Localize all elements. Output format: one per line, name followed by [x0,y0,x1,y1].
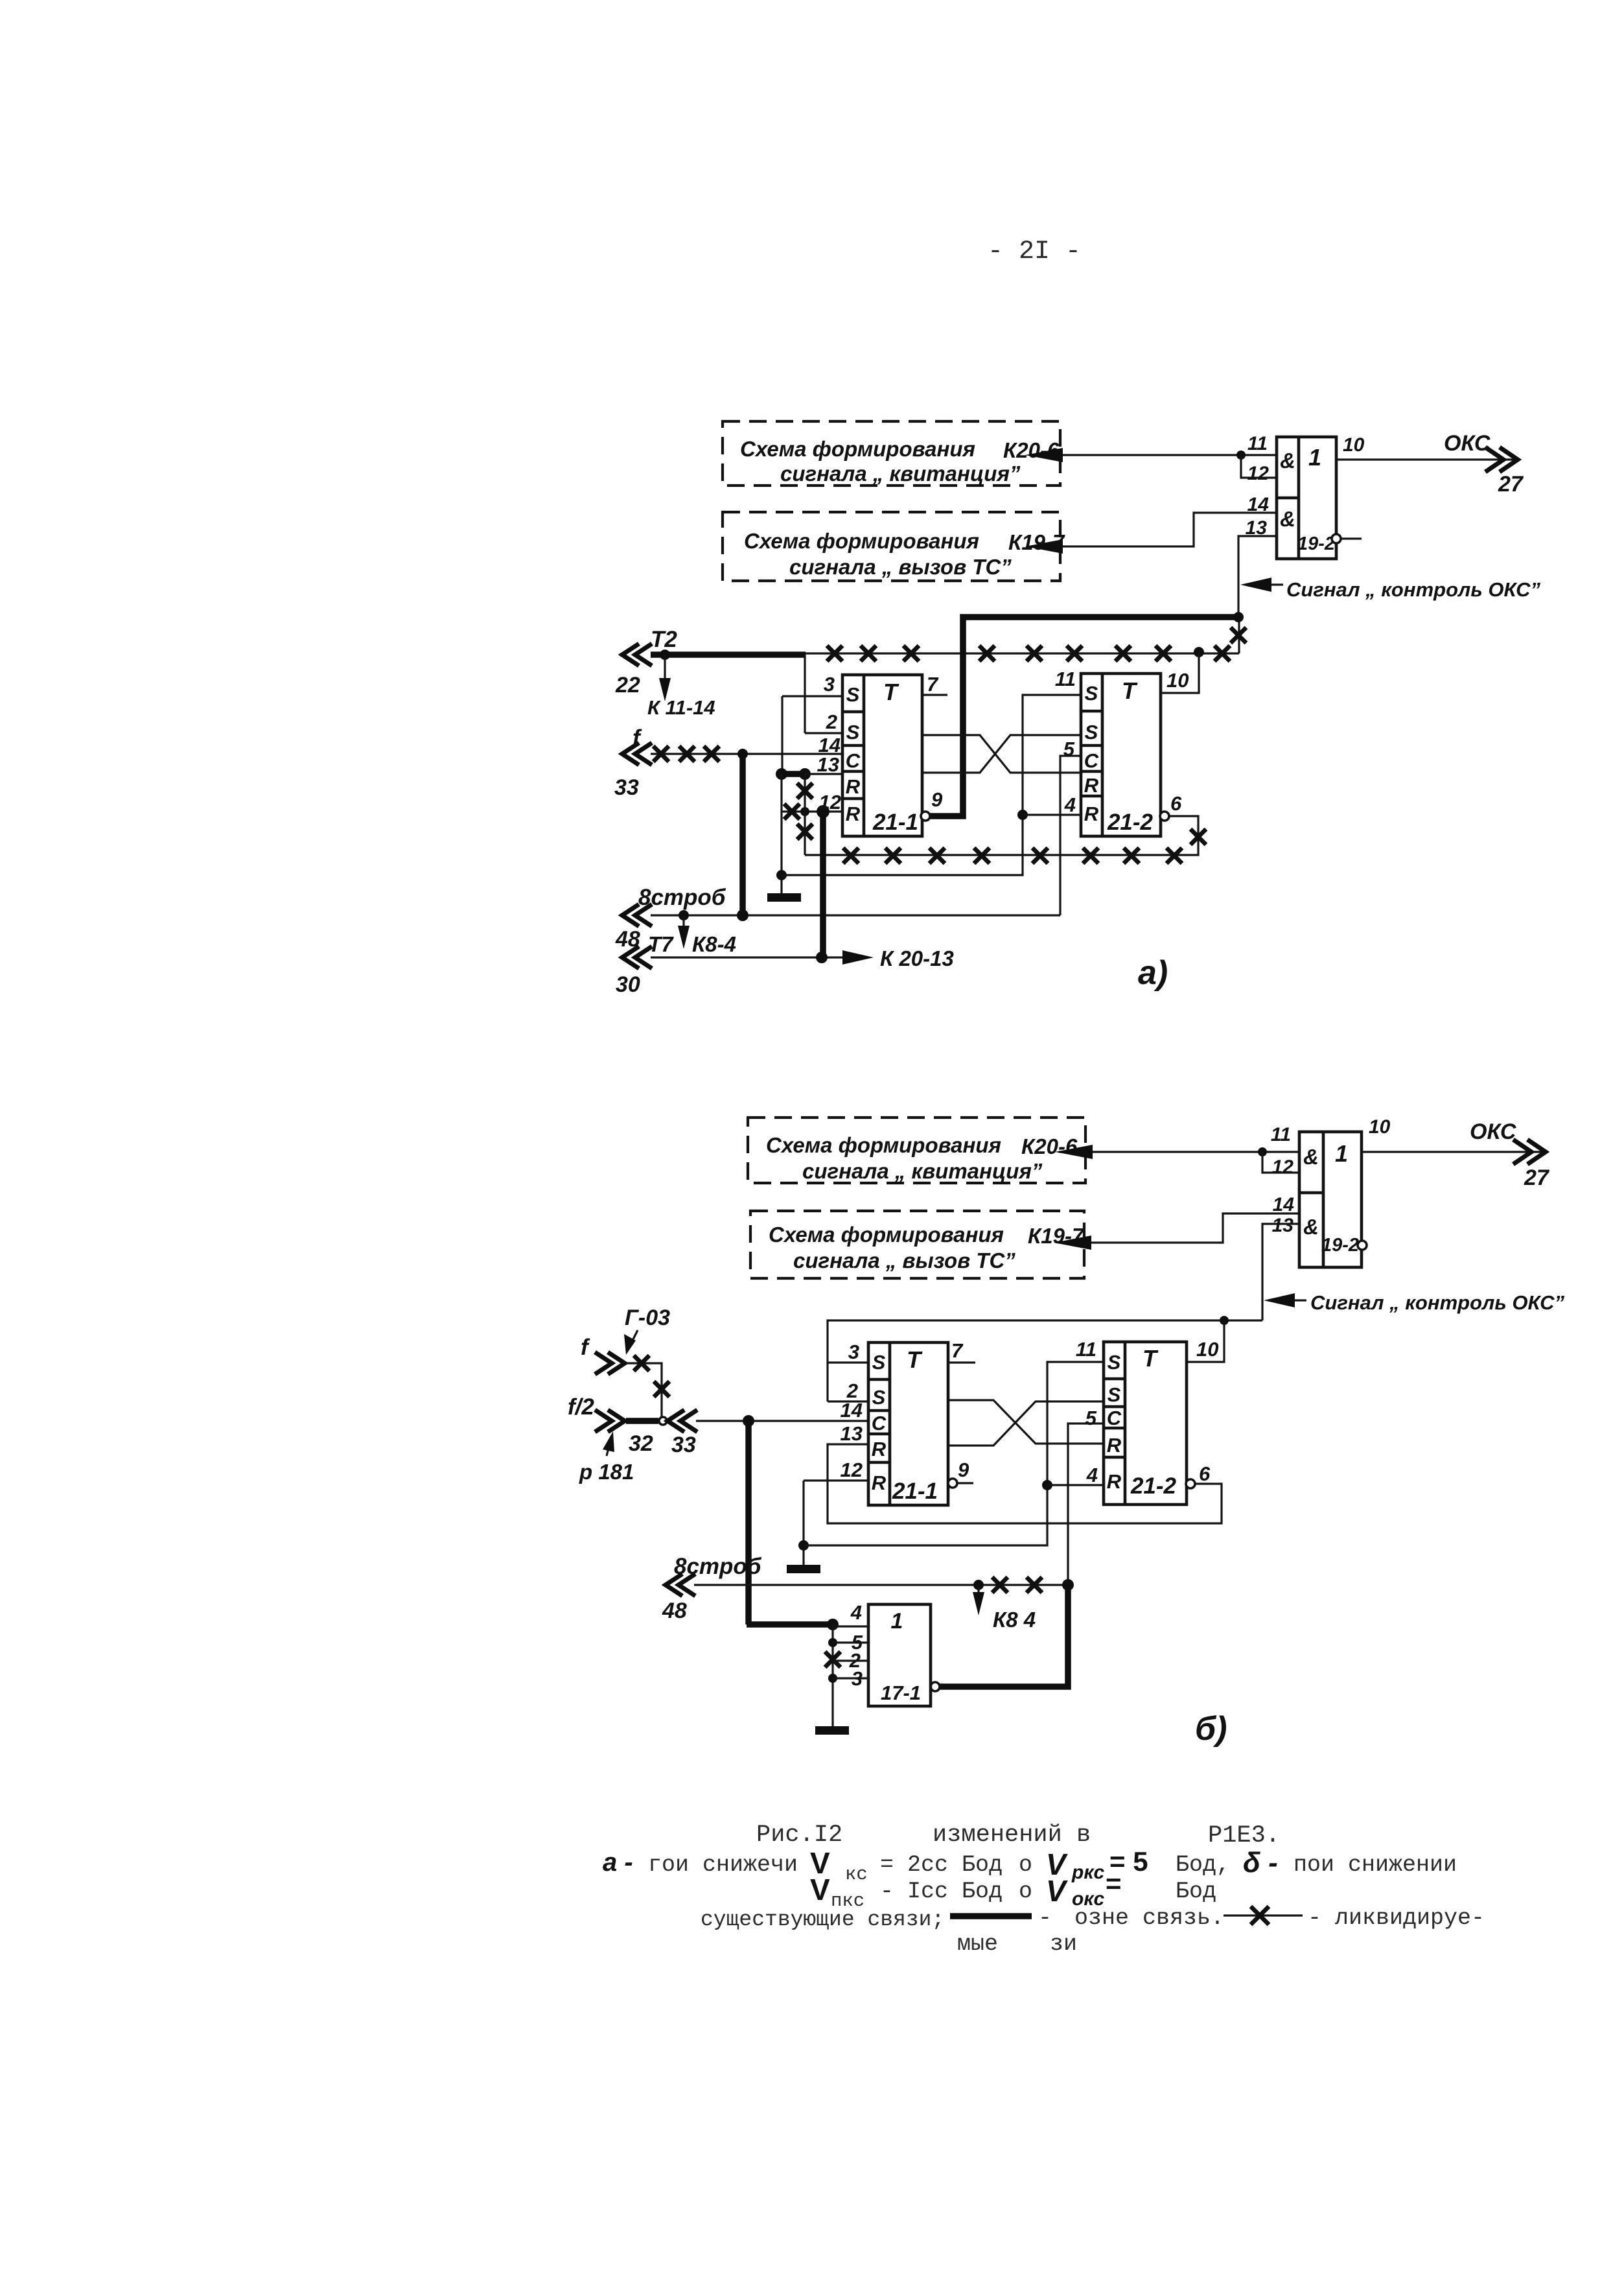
svg-text:=: = [1106,1868,1122,1899]
wire thick new: строб to 17-1 output (b) [940,1585,1068,1687]
node 30-line / thick vertical [816,952,828,963]
connector строб chevron 48 (b) [662,1554,762,1623]
wire К20-6 to gate pin 11 [1025,448,1277,462]
svg-text:Схема формирования: Схема формирования [740,437,975,461]
svg-text:S: S [872,1386,886,1409]
wire T7 line to К 20-13 [651,946,954,970]
svg-text:ОКС: ОКС [1470,1119,1516,1144]
svg-text:а): а) [1138,954,1168,992]
node R1 right [799,768,811,780]
svg-text:14: 14 [1247,494,1270,515]
dashed box: Схема формирования сигнала квитанция (b) [748,1118,1085,1183]
svg-text:30: 30 [616,972,640,997]
node R1 left [776,768,787,780]
svg-text:гои снижечи: гои снижечи [648,1852,798,1878]
svg-text:21-1: 21-1 [892,1479,938,1504]
label Г-03 with arrow [624,1306,670,1355]
wire old line T2 to gate (liquidated, X marks) [806,617,1246,661]
svg-text:S: S [1108,1383,1121,1406]
svg-text:21-2: 21-2 [1130,1473,1177,1499]
wire pin 7 stub (b) [948,1339,975,1363]
svg-text:сигнала „ вызов ТС”: сигнала „ вызов ТС” [789,555,1012,579]
svg-text:зи: зи [1050,1931,1077,1957]
wire feedback to FF2 pins 11/4 [782,695,1081,875]
svg-text:12: 12 [841,1459,863,1481]
node pin 4 branch [1017,810,1028,820]
label р 181 with arrow [579,1431,634,1484]
svg-text:ОКС: ОКС [1444,431,1491,456]
logic gate U17-1 [849,1601,931,1706]
svg-text:V: V [810,1873,830,1906]
svg-text:12: 12 [1247,463,1270,484]
svg-text:изменений в: изменений в [933,1822,1091,1849]
wire T2 thick new segment [651,651,806,658]
svg-text:33: 33 [614,775,639,800]
node строб / thick f rail [737,909,748,921]
svg-text:19-2: 19-2 [1297,533,1335,554]
svg-text:Схема формирования: Схема формирования [766,1133,1001,1157]
svg-text:Сигнал „ контроль ОКС”: Сигнал „ контроль ОКС” [1310,1291,1564,1314]
svg-text:Рис.I2: Рис.I2 [756,1822,842,1849]
wire К20-6 to gate pin 11 (b) [1055,1145,1299,1159]
node pin11/12 junction [1236,451,1246,460]
svg-text:4: 4 [850,1601,862,1624]
legend X line: liquidated connections [1224,1906,1303,1925]
wire return line to FF2 pins 11/4 (b) [804,1362,1104,1545]
wire ОКС output (a) [1336,431,1524,497]
node строб / C jog / thick drop (b) [1062,1579,1074,1591]
svg-text:озне связь.: озне связь. [1074,1905,1224,1931]
pin 9 inverted output circle (b) [948,1459,973,1488]
svg-text:48: 48 [662,1599,687,1623]
node pin 5 tap [828,1638,837,1647]
svg-text:C: C [1084,749,1099,772]
wire pin 3 stub (b) [828,1361,868,1363]
svg-text:а -: а - [603,1848,633,1877]
svg-text:3: 3 [824,673,835,696]
svg-text:S: S [872,1351,886,1374]
svg-text:&: & [1303,1145,1319,1169]
svg-text:12: 12 [1272,1156,1294,1178]
wire f input line to pin 14 (X marks) [651,746,842,762]
svg-text:11: 11 [1076,1338,1096,1361]
svg-text:10: 10 [1369,1116,1391,1138]
svg-text:2: 2 [826,710,837,733]
svg-text:Г-03: Г-03 [625,1306,670,1330]
wire pin 2 stub (b) [828,1400,868,1402]
svg-text:Т: Т [907,1346,923,1373]
svg-text:10: 10 [1196,1338,1218,1361]
node pin 3 tap [828,1674,837,1683]
svg-text:10: 10 [1166,669,1189,692]
svg-text:ркс: ркс [1071,1862,1105,1883]
wire pin 13 riser (b) [1262,1224,1299,1320]
wire контроль ОКС line to pins 3/2 [828,1320,1262,1401]
svg-text:27: 27 [1524,1166,1550,1190]
flip-flop U21-2 (b) [1076,1338,1187,1505]
svg-text:22: 22 [615,673,640,697]
svg-text:&: & [1280,449,1295,473]
wire Сигнал контроль ОКС arrow [1240,578,1540,601]
svg-text:Схема формирования: Схема формирования [769,1223,1004,1247]
op gate U19-2 (a) [1246,433,1336,559]
svg-text:7: 7 [927,673,939,696]
svg-text:R: R [846,803,861,825]
node ground rail / return line (b) [798,1540,809,1551]
node pin 12 / new thick vertical [817,805,829,818]
svg-text:11: 11 [1271,1124,1291,1145]
svg-text:существующие связи;: существующие связи; [701,1908,944,1932]
svg-text:R: R [1107,1434,1122,1457]
svg-text:Т: Т [1122,677,1138,704]
svg-text:5: 5 [1063,738,1075,760]
node pin 4 branch (b) [1042,1480,1052,1490]
connector Т2 chevron 22 [615,627,677,697]
connector f chevron 33 [614,725,652,800]
wire 17-1 input rail [825,1624,841,1726]
svg-text:13: 13 [817,753,839,776]
svg-text:Т: Т [883,679,899,705]
wire pin 10 riser (b) [1187,1320,1224,1362]
svg-text:о: о [1019,1879,1032,1904]
dashed box: Схема формирования сигнала вызов ТС (b) [750,1211,1085,1278]
svg-text:13: 13 [1246,517,1268,539]
wire thick new connection pin9 to pin13 riser [929,617,1238,816]
wire thick new: pin12 to T7 line [820,812,826,957]
node 17-1 input rail top [827,1619,839,1630]
svg-text:1: 1 [891,1609,903,1634]
svg-text:Сигнал „ контроль ОКС”: Сигнал „ контроль ОКС” [1286,578,1540,601]
gate 19-2 inverted output circle (b) [1358,1241,1367,1250]
legend thick line: new connections [950,1913,1032,1919]
node pin10 riser (b) [1220,1316,1229,1325]
connector 33 chevron out (b) [667,1410,697,1457]
wire crossover lower-to-upper (b) [948,1401,1104,1446]
wire crossover upper-to-lower [922,735,1081,773]
svg-text:R: R [872,1471,887,1494]
svg-text:33: 33 [671,1433,696,1457]
wire pin 13 riser [1238,536,1277,617]
node f / strobe tie [737,749,748,759]
svg-text:f/2: f/2 [568,1394,594,1420]
wire строб line [651,914,1060,916]
svg-text:Т2: Т2 [651,627,677,652]
dashed box: Схема формирования сигнала квитанция (a) [723,421,1060,486]
svg-text:12: 12 [819,791,841,814]
wire thick new rail f/2 to 17-1 (b) [747,1421,833,1624]
svg-text:32: 32 [629,1431,653,1456]
svg-text:6: 6 [1199,1462,1211,1485]
wire ОКС output (b) [1362,1116,1550,1190]
svg-text:21-1: 21-1 [872,810,918,835]
svg-text:19-2: 19-2 [1321,1235,1359,1256]
svg-text:сигнала „ квитанция”: сигнала „ квитанция” [802,1159,1043,1183]
svg-text:= 2сс Бод: = 2сс Бод [880,1852,1003,1878]
svg-text:пои снижении: пои снижении [1293,1852,1457,1878]
svg-text:р 181: р 181 [579,1460,634,1484]
wire pin 4 row (b) [1047,1484,1104,1486]
wire pin 12 jog (b) [1262,1152,1299,1173]
node строб / К8-4 tap [679,910,689,920]
svg-text:- ликвидируе-: - ликвидируе- [1308,1905,1485,1931]
op gate U19-2 (b) [1271,1124,1362,1267]
svg-text:S: S [1085,682,1098,705]
node T2 / К11-14 tap [660,650,670,660]
svg-text:Бод: Бод [1176,1879,1216,1904]
dashed box: Схема формирования сигнала вызов ТС (a) [723,512,1065,581]
svg-text:-: - [1038,1905,1052,1931]
svg-text:&: & [1303,1215,1319,1239]
svg-text:S: S [1108,1351,1121,1374]
node thick line / pin13 riser [1233,612,1244,622]
wire C input jog from strobe (b) [1068,1424,1104,1585]
wire К19-7 to gate pin 14 (b) [1054,1213,1299,1250]
wire pin 12 row (b) [804,1479,868,1481]
svg-text:4: 4 [1064,793,1076,816]
wire f to f/2 junction with X marks [626,1355,669,1421]
svg-text:6: 6 [1170,792,1182,815]
svg-text:V: V [1046,1874,1068,1908]
wire Сигнал контроль ОКС arrow (b) [1264,1291,1564,1314]
ground symbol (a) [767,893,801,902]
wire pin 2 [805,732,842,734]
wire C input jog from strobe [1060,756,1081,915]
pin 9 inverted output circle [921,788,943,821]
wire thick new segment pin 13 row [782,771,805,777]
wire crossover upper-to-lower (b) [948,1400,1104,1444]
svg-text:27: 27 [1498,472,1524,497]
node pin11/12 junction (b) [1258,1147,1267,1156]
svg-text:кс: кс [845,1864,868,1885]
svg-text:C: C [846,749,861,772]
connector строб chevron 48 [615,885,726,952]
connector f chevron (b) [581,1335,625,1374]
wire f/2 thick stub [626,1418,658,1424]
wire К19-7 to gate pin 14 [1025,513,1277,554]
svg-text:14: 14 [841,1399,863,1422]
svg-text:R: R [846,775,861,798]
svg-text:13: 13 [1272,1215,1294,1236]
wire left rail to R inputs [781,696,783,774]
svg-text:Т: Т [1143,1345,1159,1372]
pin 6 inverted output circle [1160,792,1182,821]
svg-text:К8-4: К8-4 [692,932,736,956]
svg-text:Бод,: Бод, [1176,1852,1230,1878]
svg-text:- Iсс Бод: - Iсс Бод [880,1879,1003,1904]
svg-text:14: 14 [1273,1194,1295,1215]
svg-text:4: 4 [1086,1464,1098,1486]
svg-text:К8 4: К8 4 [993,1608,1036,1632]
ground symbol upper (b) [787,1565,820,1573]
node f/2 / thick rail (b) [743,1415,754,1427]
svg-text:δ -: δ - [1243,1847,1278,1879]
node pin 12 / old vertical [800,807,809,816]
gate 19-2 inverted output circle [1332,534,1362,543]
node feedback tap [776,870,787,880]
wire pin 7 stub [922,673,947,696]
svg-text:10: 10 [1343,434,1365,456]
svg-text:5: 5 [1085,1407,1097,1429]
node строб / К8 4 tap (b) [973,1580,984,1590]
svg-text:9: 9 [958,1459,969,1481]
wire old vertical with X marks [797,774,813,855]
wire К 11-14 down arrow [647,655,715,719]
flip-flop U21-2 (a) [1055,668,1161,836]
node old line / pin10 riser [1194,647,1204,657]
wire К8 4 down arrow (b) [973,1585,1036,1632]
svg-text:7: 7 [951,1339,964,1362]
svg-text:9: 9 [931,788,943,811]
svg-text:сигнала „ квитанция”: сигнала „ квитанция” [780,462,1021,486]
wire pin 13 stub [805,773,842,775]
svg-text:Т7: Т7 [648,932,674,956]
svg-text:C: C [872,1412,887,1435]
gate U17-1 output circle [931,1682,940,1691]
svg-text:Р1Е3.: Р1Е3. [1208,1822,1280,1849]
svg-text:1: 1 [1308,444,1321,471]
svg-text:17-1: 17-1 [881,1682,921,1704]
svg-text:21-2: 21-2 [1107,810,1154,835]
wire строб line (b) [694,1577,1068,1593]
wire crossover lower-to-upper [922,735,1081,773]
svg-text:13: 13 [841,1422,863,1445]
wire f/2 line to pin 14 (b) [696,1420,868,1422]
wire thick new: f line to strobe line [739,754,746,916]
connector 30 chevron [616,946,652,997]
wire pin 12 jog [1241,455,1277,478]
svg-text:К 11-14: К 11-14 [647,696,715,719]
svg-text:8строб: 8строб [674,1554,762,1579]
svg-text:C: C [1107,1407,1122,1429]
svg-text:мые: мые [957,1931,998,1957]
node f junction circle [659,1417,667,1425]
svg-text:Схема формирования: Схема формирования [744,529,979,553]
svg-text:R: R [1084,774,1099,797]
svg-text:11: 11 [1247,433,1268,454]
wire ground rail (b) [802,1481,804,1565]
svg-text:о: о [1019,1852,1032,1878]
pin 6 inverted output circle (b) [1186,1462,1211,1488]
svg-text:S: S [846,683,860,706]
svg-text:1: 1 [1335,1140,1348,1167]
wire pin 12 row with X [782,804,842,819]
svg-text:сигнала „ вызов ТС”: сигнала „ вызов ТС” [793,1248,1015,1272]
ground symbol lower (b) [815,1726,849,1735]
wire pin 4 row [1023,814,1081,815]
svg-text:S: S [846,721,860,744]
wire К8-4 down arrow [648,915,736,956]
flip-flop U21-1 (a) [817,673,922,836]
connector f/2 chevron 32 [568,1394,653,1456]
svg-text:- 2I -: - 2I - [988,237,1081,266]
svg-text:3: 3 [848,1341,859,1363]
flip-flop U21-1 (b) [841,1341,948,1505]
svg-text:б): б) [1195,1710,1227,1748]
svg-text:К20-6: К20-6 [1021,1134,1078,1158]
svg-text:8строб: 8строб [638,885,726,910]
wire old X-marked return line to pin 6 [805,816,1206,863]
wire pin 13 feedback from pin 6 (b) [828,1444,1222,1523]
svg-text:R: R [1084,803,1099,825]
svg-text:R: R [1107,1470,1122,1493]
wire ground rail [780,774,782,893]
wire pin 10 to old line [1161,652,1199,693]
svg-text:К 20-13: К 20-13 [880,946,954,970]
wire 17-1 pin stubs [833,1626,868,1678]
svg-text:11: 11 [1055,668,1076,690]
svg-text:&: & [1280,507,1295,531]
svg-text:S: S [1085,721,1098,744]
wire pin 3 from T2 line [782,655,842,733]
svg-text:R: R [872,1438,887,1460]
